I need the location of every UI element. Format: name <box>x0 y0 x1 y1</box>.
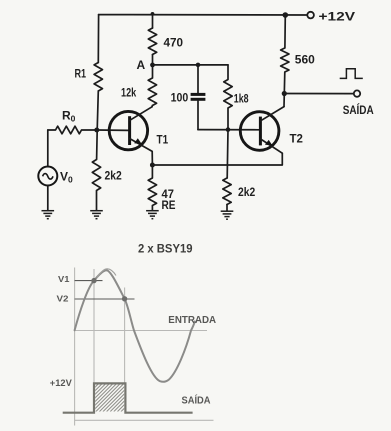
node A <box>150 63 155 68</box>
wire node A bus <box>153 64 229 66</box>
wire collector up <box>283 94 285 107</box>
svg-text:560: 560 <box>295 52 315 66</box>
svg-text:SAÍDA: SAÍDA <box>182 393 211 406</box>
svg-text:+12V: +12V <box>50 378 72 388</box>
V2 point <box>122 296 127 301</box>
junction 1k8 bottom <box>226 127 231 132</box>
V2 level line <box>75 298 135 300</box>
svg-text:SAÍDA: SAÍDA <box>343 102 374 117</box>
svg-text:100: 100 <box>171 90 189 104</box>
svg-text:470: 470 <box>164 35 184 49</box>
SAIDA terminal <box>354 90 360 96</box>
svg-text:RE: RE <box>162 198 176 212</box>
wire 470 bottom <box>152 55 154 65</box>
resistor 2k2 left <box>92 130 100 210</box>
junction output <box>282 91 287 96</box>
junction on rail at 560 <box>283 12 289 18</box>
svg-text:2 x BSY19: 2 x BSY19 <box>138 244 193 256</box>
resistor 47 RE <box>148 165 156 210</box>
svg-text:ENTRADA: ENTRADA <box>168 315 216 326</box>
svg-text:2k2: 2k2 <box>238 185 255 199</box>
wire 12k to T1 collector <box>151 106 153 107</box>
wire emitter bus <box>152 153 282 165</box>
+12V terminal <box>307 12 314 19</box>
wire 2k2 right bottom <box>226 205 228 211</box>
resistor 470 <box>148 28 156 55</box>
svg-text:A: A <box>137 58 146 72</box>
wire T2 base <box>198 129 259 131</box>
transistor T2 <box>240 107 284 154</box>
junction cap top <box>196 63 201 68</box>
ground 47 RE <box>146 211 159 219</box>
guide line V2 <box>124 288 126 384</box>
pulse hatch <box>67 384 152 412</box>
ground V0 <box>42 211 55 219</box>
junction on rail at 470 <box>151 12 155 16</box>
pulse waveform SAIDA <box>64 383 192 412</box>
svg-text:+12V: +12V <box>319 10 356 24</box>
sine double stroke at peak <box>97 269 116 278</box>
transistor T1 <box>109 107 152 165</box>
ground 2k2 right <box>221 211 234 219</box>
ground 2k2 left <box>90 211 103 219</box>
wire top power rail <box>99 14 307 16</box>
svg-text:2k2: 2k2 <box>105 168 122 182</box>
resistor R1 <box>94 63 102 92</box>
wire output <box>284 93 353 95</box>
waveform bottom axis <box>75 419 214 421</box>
resistor Ro <box>48 126 97 134</box>
svg-text:1k8: 1k8 <box>234 91 249 105</box>
svg-text:R1: R1 <box>75 66 87 80</box>
wire 470 top <box>152 14 154 28</box>
svg-text:T2: T2 <box>290 131 304 145</box>
pulse glyph <box>340 69 363 79</box>
resistor 2k2 right <box>223 178 231 205</box>
svg-text:V1: V1 <box>58 274 70 284</box>
svg-text:V2: V2 <box>57 293 69 303</box>
resistor 12k <box>148 65 156 106</box>
V1 point <box>91 278 96 283</box>
capacitor 100 <box>191 65 206 130</box>
waveform vertical axis <box>74 268 76 426</box>
svg-text:T1: T1 <box>157 133 169 147</box>
wire R1 branch top <box>97 15 99 63</box>
svg-text:12k: 12k <box>121 85 136 99</box>
guide line V1 <box>93 269 95 383</box>
source V0 <box>38 130 57 210</box>
resistor 1k8 <box>224 65 232 130</box>
sine curve ENTRADA <box>75 270 195 382</box>
V1 level line <box>75 280 103 282</box>
resistor 560 <box>281 15 289 94</box>
wire R1 bottom <box>97 91 98 130</box>
wire divider down <box>226 130 229 178</box>
junction T1 base <box>94 128 99 133</box>
wire base to T1 <box>97 129 129 131</box>
junction T1 emitter <box>150 163 155 168</box>
waveform zero baseline <box>75 330 207 332</box>
